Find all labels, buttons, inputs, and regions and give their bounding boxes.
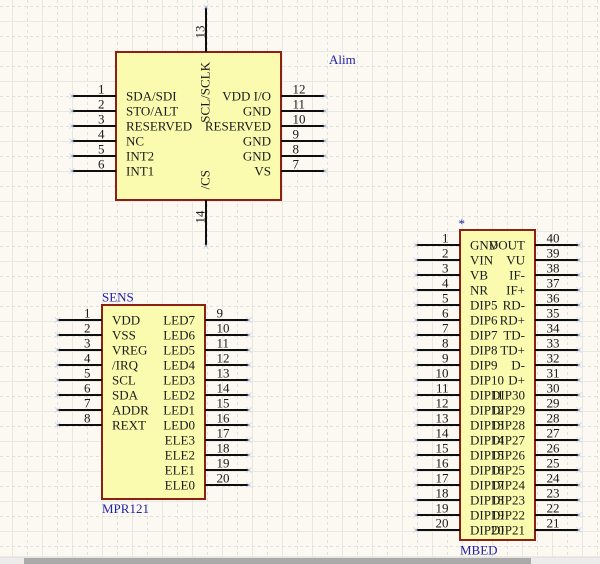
svg-text:14: 14 [217, 381, 231, 396]
svg-text:DIP8: DIP8 [470, 343, 497, 358]
svg-text:6: 6 [84, 381, 91, 396]
IC1 pin 2 (STO/ALT) [69, 97, 178, 119]
IC3 pin 23 (DIP23) [491, 486, 582, 508]
svg-text:20: 20 [217, 471, 230, 486]
svg-text:DIP5: DIP5 [470, 298, 497, 313]
IC1 pin 4 (NC) [69, 127, 144, 149]
svg-text:23: 23 [547, 486, 560, 501]
svg-text:DIP25: DIP25 [491, 463, 525, 478]
IC1 pin 9 (GND) [243, 127, 328, 149]
IC1 pin 12 (VDD I/O) [222, 82, 327, 104]
svg-text:DIP30: DIP30 [491, 388, 525, 403]
svg-text:37: 37 [547, 276, 561, 291]
IC3 pin 29 (DIP29) [491, 396, 582, 418]
svg-text:14: 14 [436, 426, 450, 441]
svg-text:16: 16 [436, 456, 450, 471]
IC1 Alim body [116, 52, 281, 200]
svg-text:DIP22: DIP22 [491, 508, 525, 523]
IC3 pin 3 (VB) [413, 261, 488, 283]
svg-text:RD+: RD+ [500, 313, 525, 328]
designator * [459, 216, 466, 231]
IC2 pin 11 (LED5) [163, 336, 251, 358]
IC2 pin 17 (ELE3) [165, 426, 252, 448]
IC2 pin 18 (ELE2) [165, 441, 252, 463]
svg-text:ELE1: ELE1 [165, 463, 195, 478]
svg-text:LED6: LED6 [163, 328, 195, 343]
IC3 pin 13 (DIP13) [413, 411, 504, 433]
svg-text:13: 13 [436, 411, 449, 426]
svg-text:SDA: SDA [112, 388, 139, 403]
svg-text:LED1: LED1 [163, 403, 195, 418]
svg-text:38: 38 [547, 261, 560, 276]
svg-text:ELE0: ELE0 [165, 478, 195, 493]
IC2 pin 19 (ELE1) [165, 456, 252, 478]
svg-text:INT1: INT1 [126, 164, 154, 179]
svg-text:13: 13 [217, 366, 230, 381]
svg-text:DIP7: DIP7 [470, 328, 498, 343]
IC3 pin 12 (DIP12) [413, 396, 504, 418]
svg-text:TD-: TD- [503, 328, 525, 343]
svg-text:5: 5 [98, 142, 105, 157]
IC3 pin 27 (DIP27) [491, 426, 582, 448]
svg-text:34: 34 [547, 321, 561, 336]
IC3 pin 7 (DIP7) [413, 321, 498, 343]
IC2 pin 10 (LED6) [163, 321, 251, 343]
svg-text:RESERVED: RESERVED [126, 119, 192, 134]
IC2 pin 8 (REXT) [55, 411, 146, 433]
svg-text:DIP29: DIP29 [491, 403, 525, 418]
svg-text:RESERVED: RESERVED [205, 119, 271, 134]
svg-text:3: 3 [84, 336, 91, 351]
svg-text:LED7: LED7 [163, 313, 195, 328]
svg-text:STO/ALT: STO/ALT [126, 104, 178, 119]
svg-text:VREG: VREG [112, 343, 147, 358]
svg-text:LED0: LED0 [163, 418, 195, 433]
svg-text:39: 39 [547, 246, 560, 261]
IC3 pin 36 (RD-) [503, 291, 582, 313]
svg-text:VDD I/O: VDD I/O [222, 89, 271, 104]
IC3 pin 2 (VIN) [413, 246, 493, 268]
svg-text:1: 1 [98, 82, 105, 97]
svg-text:SCL: SCL [112, 373, 136, 388]
IC3 pin 34 (TD-) [503, 321, 581, 343]
svg-text:LED2: LED2 [163, 388, 195, 403]
svg-text:INT2: INT2 [126, 149, 154, 164]
svg-text:MPR121: MPR121 [102, 501, 149, 516]
svg-text:/CS: /CS [198, 170, 213, 190]
svg-text:GND: GND [243, 104, 271, 119]
IC2 pin 15 (LED1) [163, 396, 251, 418]
svg-text:IF-: IF- [509, 268, 525, 283]
IC3 pin 25 (DIP25) [491, 456, 582, 478]
IC3 pin 30 (DIP30) [491, 381, 582, 403]
svg-text:DIP24: DIP24 [491, 478, 525, 493]
svg-text:33: 33 [547, 336, 560, 351]
svg-text:19: 19 [217, 456, 230, 471]
svg-text:32: 32 [547, 351, 560, 366]
IC1 pin 5 (INT2) [69, 142, 154, 164]
svg-text:MBED: MBED [460, 543, 498, 558]
svg-text:VDD: VDD [112, 313, 140, 328]
svg-text:DIP23: DIP23 [491, 493, 525, 508]
IC3 pin 37 (IF+) [506, 276, 581, 298]
IC1 pin 3 (RESERVED) [69, 112, 192, 134]
IC3 pin 35 (RD+) [500, 306, 582, 328]
svg-text:30: 30 [547, 381, 560, 396]
svg-text:7: 7 [442, 321, 449, 336]
svg-text:VOUT: VOUT [489, 238, 525, 253]
IC2 pin 20 (ELE0) [165, 471, 252, 493]
IC1 pin 10 (RESERVED) [205, 112, 328, 134]
svg-text:12: 12 [436, 396, 449, 411]
IC3 pin 31 (D+) [508, 366, 581, 388]
IC1 pin 7 (VS) [254, 157, 327, 179]
IC1 pin 1 (SDA/SDI) [69, 82, 176, 104]
svg-text:VIN: VIN [470, 253, 494, 268]
IC3 pin 5 (DIP5) [413, 291, 497, 313]
svg-text:8: 8 [84, 411, 91, 426]
IC3 pin 11 (DIP11) [413, 381, 503, 403]
IC3 pin 28 (DIP28) [491, 411, 582, 433]
designator Alim [329, 52, 356, 67]
IC2 pin 9 (LED7) [163, 306, 251, 328]
IC3 pin 9 (DIP9) [413, 351, 497, 373]
svg-text:11: 11 [217, 336, 230, 351]
svg-text:TD+: TD+ [500, 343, 525, 358]
svg-text:DIP27: DIP27 [491, 433, 525, 448]
IC2 pin 1 (VDD) [55, 306, 140, 328]
IC3 pin 26 (DIP26) [491, 441, 582, 463]
svg-text:29: 29 [547, 396, 560, 411]
svg-text:NC: NC [126, 134, 144, 149]
svg-text:GND: GND [243, 134, 271, 149]
svg-text:2: 2 [442, 246, 449, 261]
svg-text:VSS: VSS [112, 328, 136, 343]
svg-text:ELE3: ELE3 [165, 433, 195, 448]
svg-text:7: 7 [84, 396, 91, 411]
IC3 pin 33 (TD+) [500, 336, 581, 358]
IC2 pin 13 (LED3) [163, 366, 251, 388]
svg-text:11: 11 [436, 381, 449, 396]
svg-text:RD-: RD- [503, 298, 525, 313]
IC1 pin 11 (GND) [243, 97, 328, 119]
svg-text:5: 5 [84, 366, 91, 381]
IC3 pin 6 (DIP6) [413, 306, 498, 328]
svg-text:21: 21 [547, 516, 560, 531]
svg-text:REXT: REXT [112, 418, 146, 433]
svg-text:18: 18 [217, 441, 230, 456]
IC2 pin 14 (LED2) [163, 381, 251, 403]
IC1 pin 8 (GND) [243, 142, 328, 164]
svg-text:26: 26 [547, 441, 561, 456]
IC2 pin 7 (ADDR) [55, 396, 149, 418]
svg-text:24: 24 [547, 471, 561, 486]
IC3 pin 1 (GND) [413, 231, 498, 253]
svg-text:9: 9 [293, 127, 300, 142]
svg-text:DIP6: DIP6 [470, 313, 498, 328]
svg-text:SDA/SDI: SDA/SDI [126, 89, 177, 104]
svg-text:12: 12 [217, 351, 230, 366]
IC3 pin 14 (DIP14) [413, 426, 504, 448]
svg-text:D+: D+ [508, 373, 525, 388]
svg-text:ELE2: ELE2 [165, 448, 195, 463]
svg-text:LED4: LED4 [163, 358, 195, 373]
svg-text:9: 9 [217, 306, 224, 321]
IC3 pin 15 (DIP15) [413, 441, 504, 463]
svg-text:GND: GND [243, 149, 271, 164]
IC1 pin 14 (/CS) [193, 170, 213, 249]
svg-text:VS: VS [254, 164, 271, 179]
svg-text:15: 15 [436, 441, 449, 456]
IC2 pin 16 (LED0) [163, 411, 251, 433]
IC3 pin 19 (DIP19) [413, 501, 504, 523]
svg-text:NR: NR [470, 283, 488, 298]
IC2 pin 12 (LED4) [163, 351, 251, 373]
IC3 pin 4 (NR) [413, 276, 488, 298]
IC3 pin 39 (VU) [506, 246, 581, 268]
svg-text:17: 17 [217, 426, 231, 441]
svg-text:18: 18 [436, 486, 449, 501]
svg-text:4: 4 [84, 351, 91, 366]
svg-text:4: 4 [442, 276, 449, 291]
svg-text:4: 4 [98, 127, 105, 142]
IC3 pin 17 (DIP17) [413, 471, 504, 493]
svg-text:20: 20 [436, 516, 449, 531]
svg-text:12: 12 [293, 82, 306, 97]
designator MBED [460, 543, 498, 558]
IC2 MPR121 body [102, 305, 205, 499]
svg-text:6: 6 [98, 157, 105, 172]
IC3 MBED body [460, 230, 535, 540]
svg-text:DIP21: DIP21 [491, 523, 525, 538]
svg-text:DIP9: DIP9 [470, 358, 497, 373]
svg-text:10: 10 [217, 321, 230, 336]
IC2 pin 5 (SCL) [55, 366, 136, 388]
IC3 pin 10 (DIP10) [413, 366, 504, 388]
IC3 pin 32 (D-) [511, 351, 581, 373]
svg-text:2: 2 [84, 321, 91, 336]
svg-text:3: 3 [442, 261, 449, 276]
svg-text:15: 15 [217, 396, 230, 411]
svg-text:8: 8 [442, 336, 449, 351]
svg-text:5: 5 [442, 291, 449, 306]
horizontal scrollbar [0, 557, 600, 564]
svg-text:10: 10 [436, 366, 449, 381]
svg-text:LED3: LED3 [163, 373, 195, 388]
IC3 pin 8 (DIP8) [413, 336, 497, 358]
svg-text:40: 40 [547, 231, 560, 246]
svg-text:SENS: SENS [102, 290, 134, 305]
svg-text:DIP28: DIP28 [491, 418, 525, 433]
svg-text:2: 2 [98, 97, 105, 112]
svg-text:DIP26: DIP26 [491, 448, 525, 463]
IC3 pin 24 (DIP24) [491, 471, 582, 493]
IC2 pin 6 (SDA) [55, 381, 139, 403]
svg-text:9: 9 [442, 351, 449, 366]
net label SENS [102, 290, 134, 305]
IC3 pin 20 (DIP20) [413, 516, 504, 538]
IC3 pin 16 (DIP16) [413, 456, 504, 478]
svg-text:16: 16 [217, 411, 231, 426]
svg-text:14: 14 [193, 210, 208, 224]
IC3 pin 21 (DIP21) [491, 516, 582, 538]
svg-text:13: 13 [193, 26, 208, 39]
svg-text:27: 27 [547, 426, 561, 441]
svg-text:35: 35 [547, 306, 560, 321]
svg-text:IF+: IF+ [506, 283, 525, 298]
svg-text:LED5: LED5 [163, 343, 195, 358]
svg-text:36: 36 [547, 291, 561, 306]
svg-text:31: 31 [547, 366, 560, 381]
svg-text:8: 8 [293, 142, 300, 157]
svg-text:25: 25 [547, 456, 560, 471]
svg-text:11: 11 [293, 97, 306, 112]
svg-text:1: 1 [84, 306, 91, 321]
svg-text:10: 10 [293, 112, 306, 127]
svg-text:17: 17 [436, 471, 450, 486]
svg-text:/IRQ: /IRQ [112, 358, 139, 373]
svg-text:6: 6 [442, 306, 449, 321]
svg-text:ADDR: ADDR [112, 403, 149, 418]
svg-text:D-: D- [511, 358, 525, 373]
svg-text:VB: VB [470, 268, 488, 283]
svg-text:7: 7 [293, 157, 300, 172]
svg-text:Alim: Alim [329, 52, 356, 67]
svg-text:3: 3 [98, 112, 105, 127]
IC2 pin 2 (VSS) [55, 321, 136, 343]
svg-text:19: 19 [436, 501, 449, 516]
IC3 pin 18 (DIP18) [413, 486, 504, 508]
IC2 pin 4 (/IRQ) [55, 351, 139, 373]
designator MPR121 [102, 501, 149, 516]
svg-text:DIP10: DIP10 [470, 373, 504, 388]
svg-text:VU: VU [506, 253, 525, 268]
IC1 pin 13 (SCL/SCLK) [193, 4, 213, 122]
svg-text:28: 28 [547, 411, 560, 426]
IC1 pin 6 (INT1) [69, 157, 154, 179]
IC3 pin 40 (VOUT) [489, 231, 582, 253]
svg-text:SCL/SCLK: SCL/SCLK [198, 61, 213, 122]
IC3 pin 38 (IF-) [509, 261, 581, 283]
svg-text:1: 1 [442, 231, 449, 246]
svg-text:22: 22 [547, 501, 560, 516]
svg-text:*: * [459, 216, 466, 231]
IC3 pin 22 (DIP22) [491, 501, 582, 523]
IC2 pin 3 (VREG) [55, 336, 147, 358]
